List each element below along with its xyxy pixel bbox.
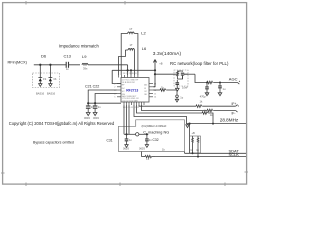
svg-text:0603: 0603 [84, 116, 90, 120]
diode D6a [39, 65, 41, 78]
svg-text:SD: SD [144, 94, 147, 96]
node: C21/C22 junction dots [87, 102, 89, 104]
inductor L9 [82, 63, 88, 65]
capacitor (AGC 1u) [219, 83, 221, 87]
U1 pin names / numbers microtext [114, 73, 157, 109]
wire: IF+ line [139, 105, 196, 106]
svg-text:GC: GC [122, 88, 126, 90]
svg-text:10nF: 10nF [182, 86, 188, 90]
svg-text:D6: D6 [41, 53, 47, 58]
ground (aux) [175, 99, 178, 102]
resistor R 1k (SCLK pull-up) [197, 136, 199, 156]
node: junction dots on supply rail [127, 69, 129, 71]
node RFin: main RF wire [34, 64, 128, 66]
wire: pull-up feed [189, 124, 191, 154]
ground (C32) [145, 145, 148, 148]
node: matching rail dots [125, 133, 127, 135]
svg-text:RF2713: RF2713 [126, 89, 138, 93]
wire: U1 pins into matching box [123, 105, 125, 134]
svg-text:+B: +B [192, 131, 196, 135]
wire: supply rail across [112, 69, 155, 71]
wire: L6 left leg jog [119, 50, 126, 75]
svg-text:VC: VC [122, 91, 125, 93]
svg-text:VC: VC [144, 91, 147, 93]
wire: bundle tap [130, 70, 132, 75]
svg-text:C13: C13 [64, 53, 72, 58]
svg-text:Bypass capacitors omitted: Bypass capacitors omitted [33, 140, 74, 144]
svg-text:Copyright (C) 2004 TOSHI(jg5ba: Copyright (C) 2004 TOSHI(jg5bafc.m) All … [9, 121, 115, 126]
wire: AGC line [195, 74, 207, 82]
svg-text:RFin(MCX): RFin(MCX) [8, 59, 28, 64]
svg-text:AG: AG [144, 84, 147, 87]
U1 bottom pin stubs [123, 102, 125, 105]
svg-text:L2: L2 [141, 31, 146, 36]
svg-text:7 8 9 10 11 12 13: 7 8 9 10 11 12 13 [123, 107, 140, 109]
IC U1 body [121, 78, 149, 103]
svg-text:L6: L6 [142, 46, 147, 51]
power +3.3V supply arrow [153, 60, 157, 87]
svg-text:(Fix)9MHz-0.039uF: (Fix)9MHz-0.039uF [142, 124, 167, 128]
inductor L5 below matching box [141, 152, 143, 157]
svg-text:C31: C31 [107, 139, 113, 143]
resistor (AGC series) [207, 81, 213, 84]
svg-text:C, maching NG: C, maching NG [143, 131, 169, 135]
svg-text:L9: L9 [82, 54, 87, 59]
svg-text:C32: C32 [153, 138, 159, 142]
capacitor C22 [95, 94, 117, 107]
capacitor (RC shunt, vertical) [181, 72, 184, 74]
svg-text:23 22 21 20 19: 23 22 21 20 19 [123, 73, 138, 75]
wire: 28.8MHz output line [134, 105, 246, 124]
svg-text:BAS16: BAS16 [47, 91, 56, 95]
capacitor C21 [88, 90, 117, 106]
U1 right pin stubs [149, 83, 153, 85]
connector circle (aux) [176, 95, 179, 98]
wire: SDAT line [185, 152, 247, 154]
wire: matching rail [124, 133, 136, 135]
svg-text:AGC: AGC [229, 77, 238, 82]
svg-text:1T: 1T [130, 43, 133, 47]
U1 top pin stubs [121, 75, 123, 78]
wire: RC box exit [184, 73, 195, 75]
resistor (RC series, vertical) [175, 71, 183, 79]
svg-text:39n: 39n [83, 66, 88, 70]
svg-text:Impedance mismatch: Impedance mismatch [59, 43, 99, 48]
U1 left pin stubs [117, 83, 121, 85]
svg-text:Q1 Q2 I1 I2 VEE: Q1 Q2 I1 I2 VEE [122, 101, 138, 103]
ground (C22) [93, 113, 97, 116]
wire: rail drop to U1 left pin 1 [112, 70, 121, 83]
svg-text:1S: 1S [43, 77, 46, 81]
svg-text:C21: C21 [85, 85, 92, 89]
ground (28.8 stub) [187, 124, 189, 125]
svg-text:0603: 0603 [139, 147, 145, 151]
diode box D6 dashed outline [33, 73, 60, 88]
resistor R 1k (SDAT pull-up) [192, 136, 194, 152]
node: SDAT/SCLK dots [192, 152, 194, 154]
capacitor C13 [65, 62, 67, 68]
ground (D6b) [49, 84, 52, 87]
ground (D6a) [39, 84, 42, 87]
svg-text:GN: GN [122, 94, 126, 96]
node: 28.8 junction dots [188, 123, 190, 125]
capacitor below RC box [176, 80, 178, 83]
wire: SCLK line [155, 156, 246, 158]
terminal tick (IF+) [236, 105, 239, 107]
RC network dashed box [174, 70, 188, 86]
ground (AGC 470p) [205, 93, 209, 96]
pull-up box [190, 136, 201, 153]
terminal tick (AGC) [238, 81, 240, 84]
terminal tick (IF-) [236, 111, 238, 113]
svg-text:1T: 1T [129, 27, 132, 31]
svg-text:28.8MHz: 28.8MHz [220, 117, 239, 122]
resistor + ground: U1 right aux [153, 89, 160, 91]
inductor (loop) in matching box [136, 133, 139, 136]
ground (RC network) [176, 88, 180, 91]
svg-text:IF-: IF- [232, 112, 236, 116]
svg-text:SCLK: SCLK [229, 152, 240, 157]
ground (C31) [125, 145, 128, 148]
svg-text:RC network(loop filter for PLL: RC network(loop filter for PLL) [170, 61, 229, 66]
svg-text:+B: +B [159, 62, 163, 66]
svg-text:0603: 0603 [93, 116, 99, 120]
wire: 28.8 upper line w/ R1k [137, 105, 203, 113]
wire: RF drop into U1 top pin [127, 65, 129, 75]
frame zone ticks [1, 1, 248, 186]
border frame [3, 3, 247, 185]
inductor L2 loop [119, 32, 138, 75]
node: D6 junction dots [39, 64, 41, 66]
matching box outline [119, 120, 185, 152]
svg-text:1S: 1S [53, 77, 56, 81]
svg-text:0603: 0603 [123, 147, 129, 151]
wire: supply to RC network [155, 73, 175, 75]
ground (AGC 1u) [218, 93, 222, 96]
capacitor C31 [126, 134, 128, 139]
node: AGC branch dots [206, 82, 208, 84]
capacitor C32 [146, 134, 148, 139]
wire: lower-left pin rail [88, 102, 121, 104]
diode D6b [49, 65, 51, 78]
micro value labels [36, 27, 226, 161]
svg-text:C22: C22 [93, 85, 100, 89]
svg-text:IF+: IF+ [232, 102, 237, 106]
node: supply tee dots [154, 69, 156, 71]
svg-text:3.3v(140mA): 3.3v(140mA) [153, 51, 182, 57]
capacitor (AGC 470p) [206, 83, 208, 88]
inductor L6 loop [125, 49, 128, 51]
svg-text:BAS16: BAS16 [36, 91, 45, 95]
ground (C21) [86, 113, 90, 116]
wire: IF- line [142, 105, 208, 111]
svg-text:IN B REF IN2: IN B REF IN2 [122, 82, 135, 84]
